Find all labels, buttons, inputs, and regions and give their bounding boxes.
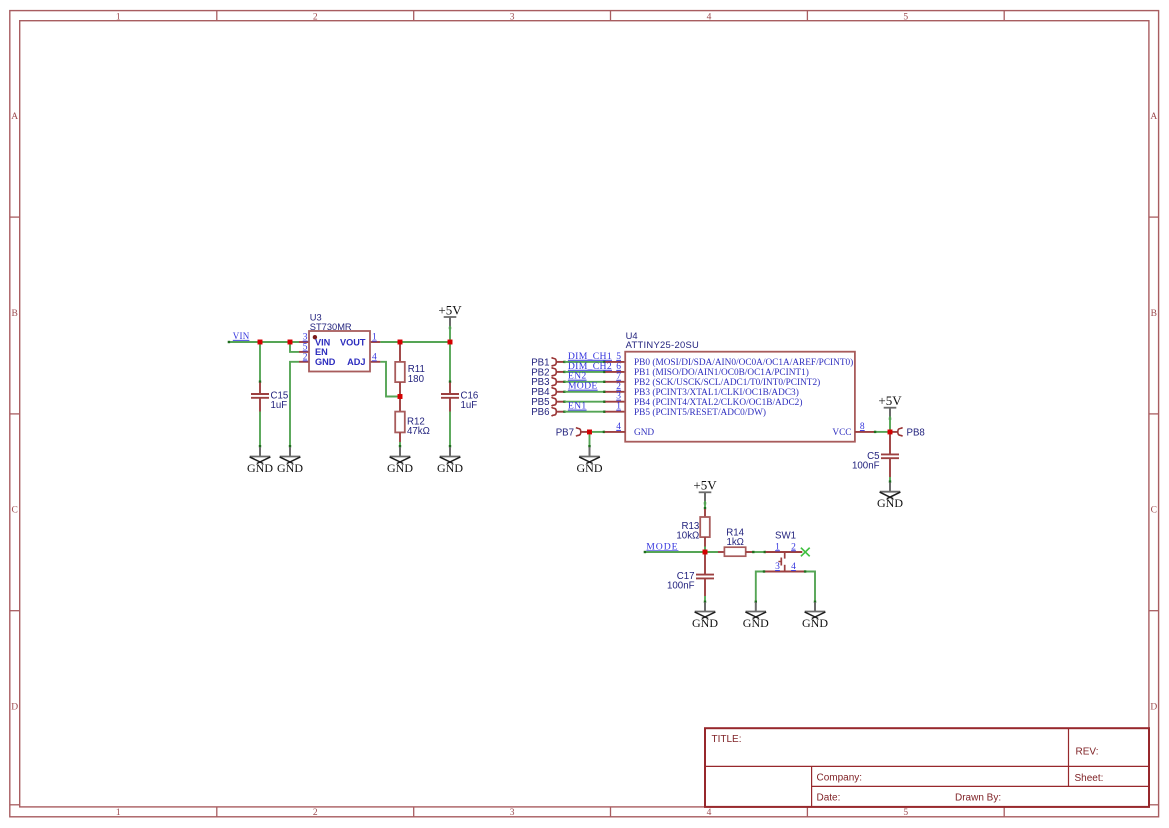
svg-text:3: 3 [775, 562, 780, 572]
svg-text:100nF: 100nF [852, 460, 880, 471]
ground under U3 GND pin [277, 447, 303, 475]
svg-text:REV:: REV: [1076, 747, 1099, 758]
R11 bottom pin [399, 382, 401, 396]
svg-text:GND: GND [387, 461, 413, 475]
PB1 pin stub [557, 361, 564, 363]
wire PB5 net [565, 401, 606, 403]
svg-text:1uF: 1uF [271, 400, 288, 411]
svg-text:180: 180 [408, 374, 425, 385]
PB8 pin stub [890, 431, 898, 433]
wire U3 GND pin to ground [290, 362, 299, 447]
xref bracket PB2 [552, 368, 557, 377]
ground under SW1 pin 4 [802, 602, 828, 630]
ground under C15 [247, 447, 273, 475]
svg-text:GND: GND [692, 616, 718, 630]
wire PB4 net [565, 391, 606, 393]
svg-text:5: 5 [616, 352, 621, 362]
wire R13 to MODE [704, 547, 706, 553]
svg-text:MODE: MODE [646, 541, 678, 552]
svg-text:+5V: +5V [438, 302, 462, 317]
svg-text:4: 4 [616, 422, 621, 432]
svg-text:SW1: SW1 [775, 531, 796, 542]
svg-text:D: D [1150, 702, 1157, 712]
wire VIN horizontal [228, 341, 299, 343]
svg-text:4: 4 [707, 808, 712, 818]
xref bracket PB6 [552, 407, 557, 416]
wire PB7 node to GND [589, 432, 591, 447]
R13 bottom pin [704, 537, 706, 546]
svg-text:1: 1 [372, 333, 377, 343]
wire C16 to GND [449, 412, 451, 448]
svg-text:A: A [1150, 112, 1157, 122]
xref bracket PB3 [552, 377, 557, 386]
svg-text:5: 5 [303, 343, 308, 353]
svg-text:A: A [11, 112, 18, 122]
capacitor C5 [852, 451, 899, 472]
svg-text:ADJ: ADJ [347, 357, 365, 367]
R14 right pin [746, 551, 753, 553]
wire VCC net [874, 431, 890, 433]
svg-text:4: 4 [707, 12, 712, 22]
capacitor C17 [667, 571, 714, 592]
wire PB7 to U4 pin 4 [590, 431, 605, 433]
svg-text:PB0 (MOSI/DI/SDA/AIN0/OC0A/OC1: PB0 (MOSI/DI/SDA/AIN0/OC0A/OC1A/AREF/PCI… [634, 357, 853, 368]
svg-text:2: 2 [313, 12, 318, 22]
R12 top pin [399, 397, 401, 412]
C15 top pin [259, 383, 261, 395]
svg-text:1uF: 1uF [461, 400, 478, 411]
wire +5V to R13 [704, 501, 706, 509]
title block [705, 728, 1149, 807]
ground under C16 [437, 447, 463, 475]
svg-text:GND: GND [315, 357, 336, 367]
svg-text:VIN: VIN [315, 337, 331, 347]
U4 pin stub row 1 [605, 361, 625, 363]
R13 top pin [704, 509, 706, 517]
svg-text:3: 3 [616, 392, 621, 402]
svg-text:EN1: EN1 [568, 401, 587, 412]
+5V supply at U4 [878, 393, 902, 420]
junction VIN / C15 [258, 340, 263, 345]
svg-text:GND: GND [743, 616, 769, 630]
wire C15 to GND [259, 412, 261, 448]
U4 pin stub row 4 [605, 391, 625, 393]
xref bracket PB4 [552, 387, 557, 396]
svg-text:TITLE:: TITLE: [712, 734, 742, 745]
wire PB6 net [565, 411, 606, 413]
svg-text:VIN: VIN [233, 331, 250, 341]
svg-text:B: B [12, 309, 18, 319]
op-amp U3 body ST730MR [309, 313, 370, 372]
wire SW1 pin 3 to ground [756, 572, 765, 603]
svg-text:3: 3 [510, 808, 515, 818]
ground under SW1 pin 3 [743, 602, 769, 630]
wire SW1 pin 4 to ground [804, 572, 815, 603]
svg-text:PB3 (PCINT3/XTAL1/CLKI/OC1B/AD: PB3 (PCINT3/XTAL1/CLKI/OC1B/ADC3) [634, 387, 799, 398]
svg-text:Drawn By:: Drawn By: [955, 793, 1001, 804]
ground under C17 [692, 602, 718, 630]
svg-text:C: C [1151, 506, 1157, 516]
C5 top pin [889, 434, 891, 454]
svg-text:+5V: +5V [693, 478, 717, 493]
capacitor C15 [251, 390, 288, 411]
U3 pin 3 VIN stub [299, 341, 309, 343]
svg-text:1kΩ: 1kΩ [726, 537, 743, 548]
resistor R11 [395, 362, 425, 385]
svg-text:2: 2 [303, 352, 308, 362]
svg-text:2: 2 [313, 808, 318, 818]
junction VIN / EN branch [288, 340, 293, 345]
R12 bottom pin [399, 432, 401, 442]
svg-text:Sheet:: Sheet: [1075, 773, 1104, 784]
svg-text:PB1 (MISO/DO/AIN1/OC0B/OC1A/PC: PB1 (MISO/DO/AIN1/OC0B/OC1A/PCINT1) [634, 367, 809, 378]
junction +5V / C16 [448, 340, 453, 345]
+5V supply at R13 [693, 478, 717, 505]
C17 top pin [704, 555, 706, 575]
svg-text:PB8: PB8 [907, 427, 925, 438]
svg-text:5: 5 [903, 808, 908, 818]
wire PB2 net [565, 371, 606, 373]
svg-text:Company:: Company: [817, 773, 863, 784]
ground under R12 [387, 447, 413, 475]
no-connect cross at SW1 pin 2 [801, 548, 810, 557]
svg-text:D: D [11, 702, 18, 712]
svg-text:1: 1 [775, 542, 780, 552]
svg-text:PB6: PB6 [531, 407, 549, 418]
wire C17 to GND [704, 596, 706, 603]
svg-text:GND: GND [877, 496, 903, 510]
svg-text:100nF: 100nF [667, 581, 695, 592]
U4 pin stub row 6 [605, 411, 625, 413]
svg-text:1: 1 [116, 808, 121, 818]
junction VOUT / R11 [398, 340, 403, 345]
wire VOUT to +5V [380, 341, 450, 343]
C17 bottom pin [704, 578, 706, 596]
R14 left pin [718, 551, 724, 553]
PB2 pin stub [557, 371, 564, 373]
svg-text:GND: GND [577, 461, 603, 475]
wire +5V to VCC node [889, 416, 891, 432]
U4 pin stub row 5 [605, 401, 625, 403]
resistor R14 [724, 528, 745, 557]
svg-text:7: 7 [616, 372, 621, 382]
svg-text:2: 2 [616, 382, 621, 392]
svg-text:Date:: Date: [817, 793, 841, 804]
U3 pin 2 GND stub [299, 361, 309, 363]
U4 pin 8 VCC stub [855, 431, 874, 433]
svg-text:5: 5 [903, 12, 908, 22]
svg-text:VCC: VCC [832, 428, 851, 438]
svg-text:1: 1 [116, 12, 121, 22]
C16 top pin [449, 383, 451, 395]
svg-text:8: 8 [860, 422, 865, 432]
svg-text:+5V: +5V [878, 393, 902, 408]
wire ADJ to R11/R12 node [380, 362, 400, 397]
PB5 pin stub [557, 401, 564, 403]
svg-text:3: 3 [303, 333, 308, 343]
svg-text:4: 4 [372, 352, 377, 362]
junction MODE / R13 / R14 / C17 [703, 550, 708, 555]
junction PB7 / U4 GND [587, 430, 592, 435]
svg-text:GND: GND [802, 616, 828, 630]
svg-text:C: C [12, 506, 18, 516]
svg-text:ATTINY25-20SU: ATTINY25-20SU [626, 339, 700, 350]
svg-text:GND: GND [247, 461, 273, 475]
wire PB1 net [565, 361, 606, 363]
C5 bottom pin [889, 458, 891, 477]
PB6 pin stub [557, 411, 564, 413]
svg-text:EN: EN [315, 347, 328, 357]
wire MODE horizontal [644, 551, 718, 553]
C15 bottom pin [259, 398, 261, 412]
xref bracket PB5 [552, 397, 557, 406]
capacitor C16 [441, 390, 478, 411]
U4 pin stub row 2 [605, 371, 625, 373]
svg-text:6: 6 [616, 362, 621, 372]
xref bracket PB7 [576, 428, 581, 437]
PB4 pin stub [557, 391, 564, 393]
svg-text:GND: GND [277, 461, 303, 475]
wire VIN to C15 [259, 342, 261, 383]
wire R12 to GND [399, 442, 401, 447]
svg-text:PB7: PB7 [556, 427, 574, 438]
U3 pin 5 EN stub [299, 351, 309, 353]
IC U4 ATTINY25-20SU body [625, 330, 855, 442]
svg-text:ST730MR: ST730MR [310, 322, 352, 332]
svg-text:1: 1 [616, 402, 621, 412]
C16 bottom pin [449, 398, 451, 412]
ground under PB7 [577, 447, 603, 475]
+5V supply at regulator output [438, 302, 462, 329]
wire R14 to SW1 [753, 551, 766, 553]
PB3 pin stub [557, 381, 564, 383]
resistor R13 [676, 517, 709, 542]
U4 pin 4 stub [605, 431, 626, 433]
R11 top pin [399, 342, 401, 362]
wire +5V to C16 [449, 342, 451, 383]
U4 pin stub row 3 [605, 381, 625, 383]
wire PB3 net [565, 381, 606, 383]
wire +5V stem [449, 326, 451, 342]
svg-text:GND: GND [437, 461, 463, 475]
switch SW1 [765, 531, 805, 572]
svg-text:47kΩ: 47kΩ [407, 426, 430, 437]
svg-text:PB5 (PCINT5/RESET/ADC0/DW): PB5 (PCINT5/RESET/ADC0/DW) [634, 407, 766, 418]
svg-text:PB4 (PCINT4/XTAL2/CLKO/OC1B/AD: PB4 (PCINT4/XTAL2/CLKO/OC1B/ADC2) [634, 397, 802, 408]
wire C5 to GND [889, 477, 891, 482]
ground under C5 [877, 482, 903, 510]
wire EN branch [290, 342, 299, 352]
PB7 pin stub [581, 431, 587, 433]
junction ADJ / R11 / R12 [398, 394, 403, 399]
xref bracket PB8 [898, 428, 903, 437]
svg-text:MODE: MODE [568, 381, 598, 392]
junction VCC / +5V / PB8 / C5 [888, 430, 893, 435]
junction overdraw pass [258, 340, 263, 345]
svg-text:GND: GND [634, 428, 654, 438]
svg-text:2: 2 [791, 542, 796, 552]
svg-text:B: B [1151, 309, 1157, 319]
svg-text:10kΩ: 10kΩ [676, 531, 699, 542]
svg-text:VOUT: VOUT [340, 337, 366, 347]
U3 pin 4 ADJ stub [370, 361, 380, 363]
xref bracket PB1 [552, 358, 557, 367]
U3 pin 1 VOUT stub [370, 341, 380, 343]
svg-text:4: 4 [791, 562, 796, 572]
resistor R12 [395, 412, 430, 438]
svg-text:3: 3 [510, 12, 515, 22]
svg-text:PB2 (SCK/USCK/SCL/ADC1/T0/INT0: PB2 (SCK/USCK/SCL/ADC1/T0/INT0/PCINT2) [634, 377, 820, 388]
